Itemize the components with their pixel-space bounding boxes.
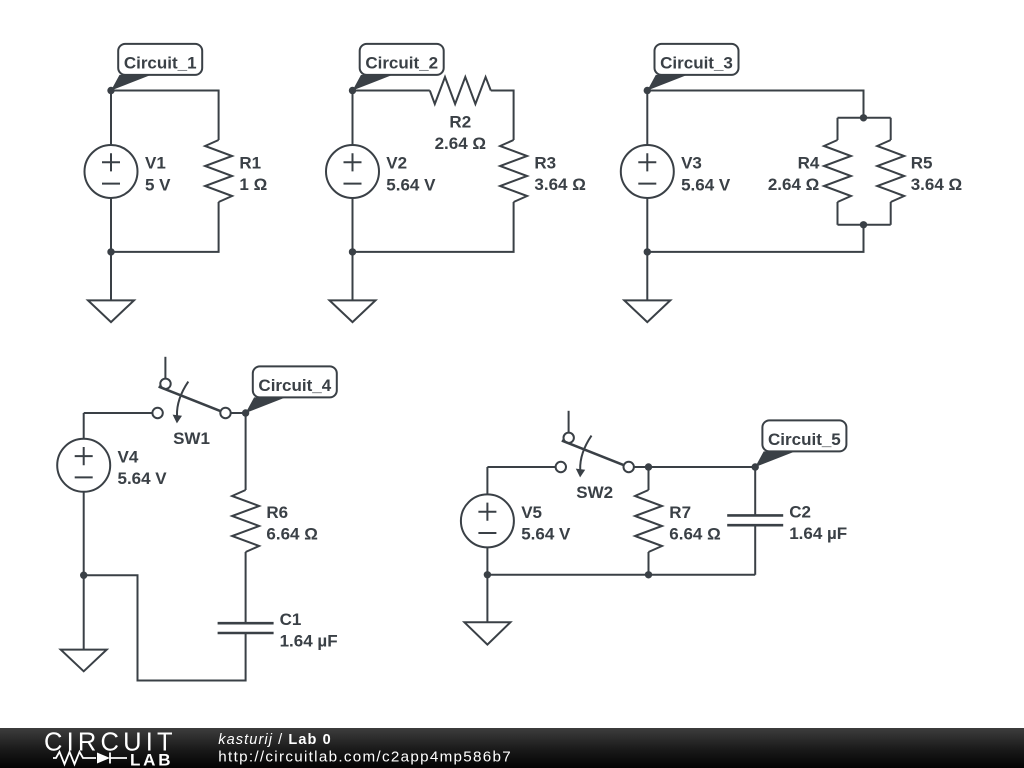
svg-text:R6: R6	[266, 503, 288, 522]
svg-text:C1: C1	[280, 610, 302, 629]
svg-text:Circuit_4: Circuit_4	[258, 376, 331, 395]
svg-text:2.64 Ω: 2.64 Ω	[768, 175, 819, 194]
svg-text:Circuit_5: Circuit_5	[768, 430, 841, 449]
svg-text:5.64 V: 5.64 V	[386, 175, 436, 194]
svg-text:C2: C2	[789, 503, 811, 522]
svg-text:R3: R3	[534, 154, 556, 173]
svg-text:R4: R4	[798, 154, 820, 173]
svg-text:R1: R1	[239, 154, 261, 173]
svg-text:5.64 V: 5.64 V	[118, 469, 168, 488]
svg-text:5 V: 5 V	[145, 175, 171, 194]
svg-text:1.64 µF: 1.64 µF	[280, 632, 338, 651]
svg-text:kasturij / Lab 0: kasturij / Lab 0	[218, 732, 331, 748]
svg-text:5.64 V: 5.64 V	[681, 175, 731, 194]
svg-text:1.64 µF: 1.64 µF	[789, 524, 847, 543]
svg-text:V3: V3	[681, 154, 702, 173]
svg-text:1 Ω: 1 Ω	[239, 175, 267, 194]
svg-text:R2: R2	[449, 112, 471, 131]
svg-text:V5: V5	[521, 503, 542, 522]
svg-text:Circuit_1: Circuit_1	[124, 54, 197, 73]
svg-text:Circuit_3: Circuit_3	[660, 54, 733, 73]
svg-text:R7: R7	[669, 503, 691, 522]
svg-text:V2: V2	[386, 154, 407, 173]
svg-text:SW1: SW1	[173, 429, 210, 448]
svg-text:R5: R5	[911, 154, 933, 173]
svg-text:6.64 Ω: 6.64 Ω	[669, 525, 720, 544]
svg-text:Circuit_2: Circuit_2	[365, 54, 438, 73]
svg-text:LAB: LAB	[130, 751, 173, 768]
svg-text:V1: V1	[145, 154, 166, 173]
svg-text:3.64 Ω: 3.64 Ω	[534, 175, 585, 194]
svg-text:3.64 Ω: 3.64 Ω	[911, 175, 962, 194]
svg-text:SW2: SW2	[576, 483, 613, 502]
svg-text:6.64 Ω: 6.64 Ω	[266, 525, 317, 544]
svg-text:2.64 Ω: 2.64 Ω	[435, 134, 486, 153]
svg-text:5.64 V: 5.64 V	[521, 525, 571, 544]
svg-text:V4: V4	[118, 447, 139, 466]
svg-text:http://circuitlab.com/c2app4mp: http://circuitlab.com/c2app4mp586b7	[218, 749, 512, 766]
